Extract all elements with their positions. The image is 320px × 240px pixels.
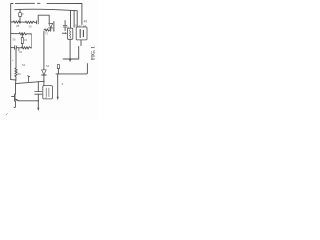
svg-text:+: +: [14, 43, 16, 47]
wire receiver feeds from rail: [70, 10, 72, 28]
wire outer loop left vertical: [11, 4, 13, 80]
wire outer top rail right + drop: [47, 3, 82, 24]
node junction center: [43, 81, 44, 82]
wire outer top rail dash: [37, 2, 40, 4]
svg-text:+: +: [12, 58, 14, 62]
svg-text:42: 42: [78, 24, 82, 28]
component C6 small element: [28, 76, 30, 82]
wire D2 down: [43, 75, 45, 86]
resistor R8 leads: [21, 34, 23, 48]
wire feedback hook: [38, 15, 49, 23]
wire rows connector: [31, 34, 33, 48]
wire border corner to junction: [11, 79, 16, 81]
wire center vertical: [43, 31, 45, 69]
svg-text:32: 32: [19, 50, 23, 54]
battery cell bar 1: [79, 30, 81, 38]
svg-text:52: 52: [22, 63, 26, 67]
wire to transistor: [15, 84, 17, 95]
capacitor C3 lead down: [64, 27, 66, 31]
capacitor C3 lead up: [64, 21, 66, 26]
crystal internal marks: [46, 88, 49, 97]
box B3 crystal: [43, 86, 53, 99]
arrowhead bottom: [37, 108, 39, 111]
capacitor C5 plates: [15, 46, 17, 50]
wire cap branch: [37, 82, 39, 92]
node A junction dot: [20, 21, 21, 22]
svg-text:36: 36: [12, 38, 16, 42]
transistor Q1 right lead: [53, 22, 55, 32]
resistor R4: [15, 68, 17, 77]
arrowhead output: [57, 97, 59, 101]
microphone box B1: [67, 28, 72, 39]
microphone element squiggle: [69, 30, 70, 38]
wire bottom bus: [16, 81, 44, 83]
svg-text:46: 46: [84, 20, 88, 24]
svg-text:50: 50: [18, 72, 22, 76]
transistor Q2 emitter arrow: [16, 99, 19, 101]
transistor Q2 base bar: [14, 94, 16, 101]
wire R1-R2: [21, 21, 26, 23]
battery box B2: [76, 27, 87, 40]
wire bottom of rail row: [11, 21, 14, 23]
svg-text:72: 72: [45, 32, 49, 36]
wire C5 to R6: [16, 47, 21, 49]
wire outer top rail segment: [15, 2, 34, 4]
resistor R1: [13, 21, 20, 23]
svg-text:30: 30: [28, 24, 32, 28]
diode D1 bar: [49, 27, 53, 29]
transistor Q2 emitter: [15, 99, 19, 101]
node junction C4-emitter: [38, 100, 39, 101]
capacitor C4 plates: [35, 92, 42, 95]
arrowhead microphone: [65, 32, 67, 34]
wire R3 to edge: [27, 33, 32, 35]
wire C4 down: [37, 94, 39, 108]
arrow into microphone: [62, 32, 65, 34]
wire R2 to C2: [34, 21, 36, 23]
diode D2 bar: [42, 74, 47, 76]
wire mid row 1: [11, 33, 19, 35]
reference numerals: [5, 12, 87, 116]
wire second feed: [73, 10, 75, 27]
wire left branch vertical: [15, 48, 17, 68]
svg-text:✓: ✓: [5, 111, 8, 116]
wire C1 to node A: [19, 17, 21, 22]
wire R5 to rail: [57, 69, 59, 74]
wire receiver output with arrow blob: [69, 39, 71, 59]
diode D1 triangle: [49, 23, 53, 27]
arrowhead receiver output: [69, 59, 71, 62]
svg-text:34: 34: [24, 38, 28, 42]
capacitor C2 plates: [37, 21, 39, 24]
wire row2 end: [30, 47, 33, 49]
svg-text:54: 54: [46, 64, 50, 68]
wire Q2 collector down: [14, 101, 15, 108]
wire emitter bus: [19, 100, 39, 102]
resistor R8 vertical body: [21, 37, 23, 43]
component R5 stub: [57, 65, 59, 69]
wire D1 down: [50, 28, 52, 31]
svg-text:40: 40: [73, 24, 77, 28]
resistor R7 small zigzag at cluster: [44, 29, 51, 31]
wire mid return: [63, 47, 78, 60]
node dot near output: [62, 83, 63, 84]
wire mid row 2: [11, 47, 15, 49]
node junction dot return: [57, 73, 58, 74]
transistor Q2 base lead: [12, 96, 15, 98]
wire inner top rail: [15, 9, 77, 26]
wire long return rail: [56, 64, 87, 74]
node junction left corner: [15, 79, 16, 80]
battery cell bar 2: [82, 30, 84, 36]
resistor R2: [25, 21, 34, 23]
svg-text:44: 44: [83, 24, 87, 28]
svg-text:FIG. 1: FIG. 1: [92, 46, 97, 60]
wire junction stub row2: [18, 48, 20, 51]
capacitor C3 plates: [63, 25, 67, 27]
wire battery bottom stub: [80, 40, 82, 46]
wire output down: [57, 74, 59, 97]
diode D2 triangle: [42, 70, 47, 75]
svg-text:28: 28: [16, 24, 20, 28]
resistor R3: [19, 33, 27, 35]
resistor R6: [21, 47, 31, 49]
capacitor C1 top-left with lead: [19, 9, 21, 12]
wire R4 to junction: [15, 77, 17, 84]
capacitor C1 body: [19, 13, 22, 17]
